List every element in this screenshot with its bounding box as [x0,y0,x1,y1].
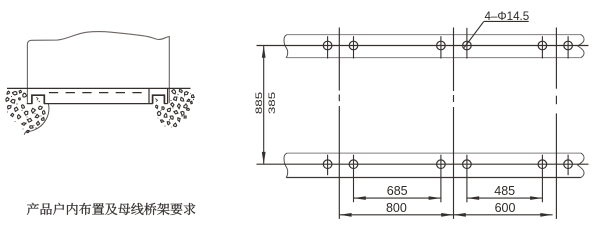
hole circle x=568.1 [564,41,573,50]
floor surface line [7,87,191,89]
concrete aggregate hatch left [6,90,45,132]
hole centerline tick [353,155,355,203]
hole centerline tick [567,36,569,58]
trench wall right inner [167,88,169,103]
hole circle x=440.9 [437,160,446,169]
hole centerline tick [567,155,569,176]
hidden edge dashed line [49,92,149,94]
cabinet outline (sectional side view) [27,32,169,104]
chain centerline x=556.4 [555,28,557,219]
chain centerline x=339.3 [338,28,340,219]
hole centerline tick [327,36,329,58]
hole centerline tick [466,155,468,203]
hole centerline tick [327,155,329,176]
svg-text:4–Φ14.5: 4–Φ14.5 [485,10,530,23]
hole circle x=327.6 [323,41,332,50]
concrete aggregate hatch right [156,90,195,128]
trench bottom line [27,103,168,105]
weld marks inside channel [36,97,157,102]
bottom channel bar outline [284,153,584,177]
top bar centerline [257,45,589,47]
dimension 600 [454,201,553,217]
hole circle x=466.9 [463,160,472,169]
hole centerline tick [466,28,468,59]
hole circle x=568.1 [564,160,573,169]
dimension 685 [354,184,441,200]
hole label 4-Φ14.5 with leader [464,10,529,47]
hole centerline tick [541,155,543,203]
hole centerline tick [440,155,442,203]
hole centerline tick [440,36,442,58]
svg-text:685: 685 [387,184,408,198]
svg-text:485: 485 [494,184,515,198]
chain centerline x=453.5 [453,28,455,219]
svg-text:885: 885 [255,92,264,114]
vertical dimension 885/385 [255,46,277,165]
hole circle x=542.4 [538,41,547,50]
dimension 485 [467,184,543,200]
trench wall right outer [148,88,150,103]
concrete break line curve [24,104,49,135]
hole centerline tick [541,36,543,58]
hole circle x=440.9 [437,41,446,50]
embedded channel steel left (section) [32,95,44,104]
hole circle x=353.5 [349,41,358,50]
hole circle x=327.6 [323,160,332,169]
caption: 产品户内布置及母线桥架要求 [27,203,195,215]
hole centerline tick [353,36,355,58]
hole circle x=353.5 [349,160,358,169]
top channel bar outline [284,35,584,58]
svg-text:600: 600 [495,201,516,215]
svg-text:800: 800 [386,201,407,215]
dimension 800 [339,201,453,217]
hole circle x=466.9 [463,41,472,50]
svg-text:385: 385 [268,92,277,114]
hole circle x=542.4 [538,160,547,169]
bottom bar centerline [257,163,589,165]
embedded channel steel right (section) [153,95,165,104]
